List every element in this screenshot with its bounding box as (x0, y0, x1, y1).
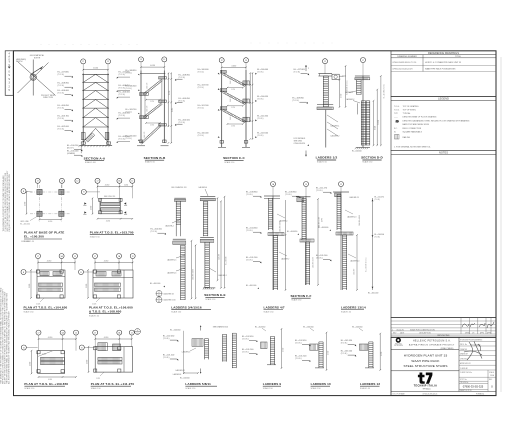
plan 103.700 outline (100, 198, 121, 214)
ladders 12 ladder (368, 342, 370, 368)
svg-text:SEE DWG 326: SEE DWG 326 (104, 196, 115, 198)
section B-B landings (140, 93, 149, 96)
section E-E upper ladder (202, 201, 204, 236)
svg-text:(T.O.S.): (T.O.S.) (58, 108, 65, 110)
svg-text:07900-33-MX-320-10 TO 20: 07900-33-MX-320-10 TO 20 (393, 62, 417, 64)
svg-text:SCALE 1:50: SCALE 1:50 (205, 298, 215, 301)
plan 111.270 grid bubbles (93, 330, 98, 335)
notes box (391, 150, 496, 317)
svg-text:ISSUE FOR CONSTRUCTION: ISSUE FOR CONSTRUCTION (410, 329, 435, 331)
svg-text:10x0.175: 10x0.175 (230, 114, 232, 120)
svg-text:CHECKED: CHECKED (460, 358, 468, 360)
svg-text:SECTION D-D: SECTION D-D (361, 156, 383, 160)
ladders 10 base (315, 367, 324, 369)
svg-text:DENOTES SPAN OF FLOOR GRATING: DENOTES SPAN OF FLOOR GRATING (403, 115, 437, 118)
ladders 13-14 upper ladder (336, 194, 338, 230)
ladders 5-8-11 down arrow (200, 369, 202, 374)
svg-text:07900-33-CS-001-1/2/3: 07900-33-CS-001-1/2/3 (393, 69, 413, 71)
svg-text:EL.+100.000: EL.+100.000 (150, 283, 160, 285)
svg-text:(TYP): (TYP) (322, 218, 324, 222)
plan base of plate grid bubble 12 (75, 178, 80, 183)
svg-text:14x0.178: 14x0.178 (144, 132, 146, 138)
ladders 13-14 mid platform (336, 232, 353, 235)
section C-C grid bubble 12 (219, 58, 224, 63)
plan 109.650 upper triangle detail (38, 351, 53, 357)
svg-text:TYPICAL: TYPICAL (403, 112, 411, 115)
svg-text:SCALE 1:50: SCALE 1:50 (24, 311, 34, 314)
svg-text:T.O.S.: T.O.S. (394, 109, 400, 111)
plan 106.600 column marks (93, 270, 96, 273)
plan 103.700 top dims (98, 186, 133, 188)
svg-text:(T.O.S.): (T.O.S.) (126, 111, 133, 113)
ladders 10 ladder (318, 342, 320, 368)
svg-text:EL.+104.650 (T.O.G.): EL.+104.650 (T.O.G.) (366, 257, 368, 272)
svg-text:LADDERS 9: LADDERS 9 (263, 382, 282, 386)
svg-text:TITLE: TITLE (455, 56, 461, 58)
ladders 13-14 grid bubble (339, 182, 344, 187)
svg-text:SCALE 1:50: SCALE 1:50 (145, 161, 155, 164)
svg-text:PROJ. No.: PROJ. No. (460, 344, 468, 346)
section F-F right dim (317, 199, 319, 285)
svg-text:D2: D2 (158, 301, 160, 303)
svg-text:12: 12 (163, 59, 165, 61)
svg-text:SHEET 01 OF 10: SHEET 01 OF 10 (460, 390, 472, 392)
svg-text:LADDER-1: LADDER-1 (218, 274, 226, 277)
svg-text:(T.O.S.): (T.O.S.) (242, 351, 249, 353)
svg-text:EL.+104.650: EL.+104.650 (255, 326, 265, 328)
svg-text:1.750: 1.750 (231, 125, 235, 127)
ladders 10 cage line (326, 333, 328, 370)
scale field (487, 370, 489, 392)
svg-text:FIELD CONNECTION: FIELD CONNECTION (403, 128, 422, 130)
svg-text:(T.O.S.): (T.O.S.) (341, 343, 348, 345)
svg-text:LADDER-5: LADDER-5 (182, 350, 190, 353)
svg-text:07900-33-SS-325-01: 07900-33-SS-325-01 (423, 393, 438, 395)
plan 104.650 stair band (39, 283, 63, 286)
ladders 13-14 top platform (333, 191, 349, 193)
svg-text:D1: D1 (158, 295, 160, 297)
svg-text:DENOTES GALVANIZED STEEL WELDE: DENOTES GALVANIZED STEEL WELDED FLOOR GR… (403, 120, 470, 123)
section C-C stair flight 3 (224, 109, 246, 121)
title block right fields (459, 340, 496, 342)
plan 111.270 bottom leader (100, 372, 104, 376)
svg-text:LADDER-2: LADDER-2 (331, 135, 340, 138)
top-left cartouche strip (5, 51, 13, 96)
svg-text:SCALE 1:50: SCALE 1:50 (263, 387, 273, 390)
ladders 9 platform (261, 342, 267, 349)
section A-A grid bubble 12 (106, 59, 111, 64)
plan 106.600 right panel (123, 270, 125, 298)
plan 109.650 outline (38, 351, 65, 374)
svg-text:(T.O.S.): (T.O.S.) (126, 88, 133, 90)
ladders 13-14 tall dim line (372, 198, 374, 290)
svg-text:TPI DWG No.: TPI DWG No. (460, 382, 469, 384)
svg-text:TOP OF STEEL: TOP OF STEEL (403, 109, 416, 111)
svg-text:(T.O.S.): (T.O.S.) (179, 100, 186, 102)
svg-text:PLAN AT T.O.S. EL.+109.650: PLAN AT T.O.S. EL.+109.650 (24, 382, 68, 386)
svg-text:4.050: 4.050 (106, 220, 110, 222)
svg-text:(T.O.S.): (T.O.S.) (119, 88, 126, 90)
section D-D right dim lines (373, 101, 375, 146)
svg-text:SCALE 1:100: SCALE 1:100 (85, 161, 96, 164)
svg-text:LADDERS 12: LADDERS 12 (360, 382, 380, 386)
plan 106.600 stair band (95, 283, 121, 286)
plan 111.270 left bubble (79, 345, 84, 350)
section E-E lower leader (209, 268, 216, 272)
svg-text:(T.O.S.): (T.O.S.) (341, 353, 348, 355)
plan 106.600 side dim (87, 270, 89, 298)
svg-text:HORIZ 1 & 2 STEAM PIPE RACK UN: HORIZ 1 & 2 STEAM PIPE RACK UNIT 33 (425, 61, 461, 64)
svg-text:SCALE 1:50: SCALE 1:50 (291, 299, 301, 302)
ladders 3-4-15-16 detail bubbles (156, 291, 162, 297)
section F-F mid platform (300, 239, 314, 242)
plan 111.270 top dims (95, 338, 132, 340)
plan 111.270 stair band (98, 357, 122, 360)
svg-text:SCALE 1:50: SCALE 1:50 (264, 311, 274, 314)
svg-text:SCALE 1:50: SCALE 1:50 (360, 387, 370, 390)
svg-text:(T.O.S.): (T.O.S.) (119, 94, 126, 96)
svg-text:PETROLEUM: PETROLEUM (394, 345, 403, 347)
ladders 12 base (365, 367, 374, 369)
plan 103.700 beam hatch top (101, 202, 120, 205)
section C-C right dim chains (249, 73, 251, 122)
svg-text:SEE DRAWING 326: SEE DRAWING 326 (171, 186, 186, 189)
svg-text:16x0.300=4.800: 16x0.300=4.800 (359, 215, 361, 226)
ladders 9 base (267, 364, 276, 366)
ladders 3-4-15-16 upper rails (175, 226, 177, 237)
ladders 5-8-11 ladder 3 (231, 333, 233, 368)
svg-text:8.850: 8.850 (374, 126, 376, 130)
section A-A bottom column stiffener left (81, 132, 85, 139)
svg-text:12: 12 (75, 332, 77, 334)
svg-text:TOP OF GRATING: TOP OF GRATING (403, 105, 419, 108)
ladders 4-7 column (272, 196, 274, 290)
svg-text:ASPRA PIRGOS UPGRADE PROJECT: ASPRA PIRGOS UPGRADE PROJECT (409, 344, 455, 347)
svg-text:1.750: 1.750 (231, 107, 235, 109)
ladders 1-2 grid bubble (323, 59, 328, 64)
section E-E base (203, 287, 215, 289)
ladders 4-7 upper ladder (268, 198, 270, 230)
svg-text:SQUARE HANDRAILS: SQUARE HANDRAILS (403, 131, 423, 134)
svg-text:NORTH: NORTH (16, 61, 23, 63)
ladders 1-2 upper ladder (322, 76, 324, 107)
svg-text:2: 2 (308, 68, 309, 70)
ladders 13-14 side dim (356, 235, 358, 290)
svg-text:DRWN: DRWN (465, 333, 470, 335)
svg-text:LADDER-11: LADDER-11 (176, 369, 185, 372)
svg-text:(T.O.S.): (T.O.S.) (179, 122, 186, 124)
svg-text:LADDER-8: LADDER-8 (173, 373, 181, 376)
svg-text:16x0.300=4.800: 16x0.300=4.800 (280, 221, 282, 232)
svg-text:PLAN AT T.O.S. EL.+104.650: PLAN AT T.O.S. EL.+104.650 (24, 305, 68, 309)
ladders 12 dim line (379, 334, 381, 370)
ladders 10 platform (310, 344, 318, 350)
ladders 3-4-15-16 mid platform (173, 238, 186, 240)
svg-text:(T.O.S.): (T.O.S.) (257, 135, 264, 137)
ladders 3-4-15-16 dim strings (191, 241, 193, 299)
svg-text:4.650: 4.650 (381, 352, 383, 356)
plan 106.600 bottom leader (96, 298, 100, 302)
svg-text:3.000: 3.000 (29, 284, 31, 288)
svg-text:(T.O.S.): (T.O.S.) (119, 115, 126, 117)
svg-text:17: 17 (37, 181, 39, 183)
svg-text:F.C.: F.C. (394, 128, 398, 130)
section D-D grid bubble (361, 58, 366, 63)
svg-text:LEGEND: LEGEND (438, 97, 449, 101)
svg-text:SCALE 1:50: SCALE 1:50 (171, 311, 181, 314)
plan 104.650 outline (37, 270, 65, 298)
svg-text:11.270: 11.270 (378, 120, 380, 125)
svg-text:TYP.: TYP. (394, 113, 398, 115)
svg-text:EL.+104.650: EL.+104.650 (287, 231, 297, 233)
svg-text:4.050: 4.050 (48, 337, 53, 339)
svg-text:(T.O.S.): (T.O.S.) (126, 138, 133, 140)
svg-text:(T.O.S.): (T.O.S.) (246, 230, 253, 232)
svg-text:1:100: 1:100 (490, 375, 494, 377)
section C-C grid bubble 13 (244, 58, 249, 63)
reference drawings table (391, 51, 496, 97)
svg-text:WAAH PIPE RACK FOUNDATIONS: WAAH PIPE RACK FOUNDATIONS (425, 68, 456, 71)
section A-A tower columns (82, 74, 84, 146)
svg-text:LADDERS 5/8/11: LADDERS 5/8/11 (185, 382, 211, 386)
svg-text:SCALE 1:50: SCALE 1:50 (224, 161, 234, 164)
svg-text:4.050: 4.050 (48, 221, 52, 223)
svg-text:DESCRIPTION: DESCRIPTION (419, 333, 431, 335)
svg-text:3.880: 3.880 (25, 202, 27, 206)
section A-A bottom column stiffener right (105, 132, 109, 139)
section B-B landing posts (144, 95, 146, 118)
section D-D upper ladder (356, 80, 358, 95)
svg-text:12: 12 (74, 256, 76, 258)
section B-B grid bubble 13 (139, 57, 144, 62)
svg-text:LADDER-13: LADDER-13 (347, 216, 356, 219)
svg-text:(T.O.S.): (T.O.S.) (198, 87, 205, 89)
svg-text:EL.+100.500: EL.+100.500 (375, 234, 385, 236)
ladders 5-8-11 left vertical (183, 331, 185, 374)
section A-A base plates (81, 142, 85, 144)
svg-text:16x0.300: 16x0.300 (354, 269, 356, 275)
svg-text:HYDROGEN PLANT UNIT 33: HYDROGEN PLANT UNIT 33 (404, 354, 448, 358)
ladders 3-4-15-16 upper platform (174, 197, 186, 199)
section B-B stair flight 1 (141, 125, 160, 143)
section B-B grid bubble 12 (162, 57, 167, 62)
ladders 1-2 bottom arrow (305, 151, 307, 157)
plan 109.650 stair band (40, 357, 64, 360)
section C-C mid landing left 2 (220, 89, 227, 92)
section B-B top dimension (141, 66, 164, 68)
section E-E lower ladder (204, 242, 206, 288)
section A-A floor beams (82, 73, 109, 75)
ladders 13-14 column (340, 192, 342, 290)
svg-text:SECTION A-A: SECTION A-A (84, 156, 106, 160)
svg-text:EL.+106.600: EL.+106.600 (318, 227, 328, 229)
plan 109.650 bottom dims (39, 376, 77, 378)
ladders 4-7 top platform (264, 195, 280, 197)
svg-text:SCALE 1:50: SCALE 1:50 (311, 387, 321, 390)
svg-text:(T.O.S.): (T.O.S.) (316, 258, 323, 260)
svg-text:SECTION F-F: SECTION F-F (290, 294, 311, 298)
plan 106.600 grid bubbles (93, 254, 98, 259)
svg-text:17: 17 (94, 332, 96, 334)
svg-text:(T.O.S.): (T.O.S.) (295, 343, 302, 345)
svg-text:DIRECTION: DIRECTION (43, 97, 54, 99)
svg-text:REVISIONS: REVISIONS (438, 335, 450, 337)
svg-text:(T.O.S.): (T.O.S.) (246, 194, 253, 196)
plan 109.650 left bubble (21, 345, 26, 350)
svg-text:16x0.178: 16x0.178 (147, 106, 149, 112)
svg-text:(T.O.S.): (T.O.S.) (257, 71, 264, 73)
svg-text:16x0.300=4.800: 16x0.300=4.800 (192, 269, 194, 280)
section D-D base hatch (356, 147, 370, 149)
section D-D top platform (355, 75, 370, 77)
svg-text:D3: D3 (136, 333, 138, 335)
svg-text:(GRADE): (GRADE) (67, 152, 75, 155)
svg-text:12: 12 (132, 256, 134, 258)
svg-text:17: 17 (37, 256, 39, 258)
plan 104.650 column marks (36, 270, 39, 273)
plan 103.700 grid bubble 1A (117, 178, 122, 183)
plan base of plate left dim (26, 192, 28, 214)
ladders 9 dim line (281, 329, 283, 368)
svg-text:LADDER-1: LADDER-1 (345, 91, 353, 94)
svg-text:& T.O.S. EL.+108.600: & T.O.S. EL.+108.600 (89, 309, 122, 313)
svg-text:17: 17 (82, 61, 84, 63)
section C-C columns (221, 70, 223, 147)
section C-C top dimension (222, 66, 246, 68)
svg-text:(T.O.S.): (T.O.S.) (119, 74, 126, 76)
section C-C stair flight 1 (224, 73, 246, 85)
plan base of plate grid bubble 1A (59, 178, 64, 183)
svg-text:EL.+104.650: EL.+104.650 (303, 326, 313, 328)
svg-text:1.750: 1.750 (231, 89, 235, 91)
svg-text:WAAH PIPE RACK: WAAH PIPE RACK (411, 359, 440, 363)
legend grating icon (395, 120, 399, 123)
section F-F grid bubble (304, 182, 309, 187)
svg-text:(T.O.S.): (T.O.S.) (285, 194, 292, 196)
plan base of plate centerlines (39, 185, 41, 222)
svg-text:4.050: 4.050 (150, 65, 155, 67)
svg-text:(T.O.S.): (T.O.S.) (375, 237, 381, 239)
section A-A bottom leader (80, 145, 82, 153)
plant north compass (30, 74, 36, 80)
svg-text:EL. +100.200: EL. +100.200 (24, 235, 44, 239)
svg-text:11x0.300: 11x0.300 (218, 254, 220, 260)
svg-text:4.650: 4.650 (341, 94, 343, 98)
svg-text:12: 12 (76, 181, 78, 183)
svg-text:PLAN AT T.O.S. EL.+103.700: PLAN AT T.O.S. EL.+103.700 (90, 230, 134, 234)
section A-A grid bubble 17 (81, 59, 86, 64)
ladders 4-7 leaders (277, 214, 285, 218)
ladders 5-8-11 up arrow (200, 326, 202, 331)
svg-text:SECTION E-E: SECTION E-E (204, 293, 225, 297)
plan 103.700 side dim (92, 198, 94, 214)
svg-text:3.000: 3.000 (30, 362, 32, 366)
section D-D column (362, 76, 364, 148)
plan 109.650 side dim (31, 351, 33, 374)
svg-text:NOTES: NOTES (439, 151, 448, 155)
svg-text:(T.O.S.): (T.O.S.) (58, 129, 65, 131)
title block company row (391, 349, 459, 351)
svg-text:LADDER-1: LADDER-1 (331, 125, 340, 128)
plan 111.270 side dim (88, 347, 90, 372)
plan 111.270 column marks (94, 347, 97, 350)
ladders 1-2 right dims (339, 80, 341, 107)
svg-text:12: 12 (324, 61, 326, 63)
svg-text:(T.O.S.): (T.O.S.) (58, 93, 65, 95)
svg-text:(T.O.S.): (T.O.S.) (294, 72, 301, 74)
legend railing icon (395, 135, 400, 140)
section D-D lower ladder (360, 101, 362, 146)
svg-text:3.715: 3.715 (172, 108, 174, 112)
section B-B columns (140, 71, 142, 143)
svg-text:SEE DRAWING 326: SEE DRAWING 326 (213, 325, 228, 328)
technip logo (418, 373, 425, 384)
svg-text:14x0.300=4.200: 14x0.300=4.200 (313, 257, 315, 268)
svg-text:1: 1 (392, 329, 393, 331)
plan 104.650 bottom leader (40, 298, 44, 302)
svg-text:TPI Milano: TPI Milano (422, 388, 430, 390)
section C-C mid landing left 3 (220, 107, 227, 110)
svg-text:LADDER-2: LADDER-2 (346, 98, 354, 101)
svg-text:(T.O.S.): (T.O.S.) (179, 77, 186, 79)
svg-text:1.750: 1.750 (150, 124, 154, 126)
svg-text:DRAWING NUMBER: DRAWING NUMBER (397, 55, 417, 58)
svg-text:SCALE 1:50: SCALE 1:50 (89, 315, 99, 318)
svg-text:(T.O.S.): (T.O.S.) (292, 100, 299, 102)
section C-C landing right 2 (243, 99, 250, 103)
svg-text:13: 13 (140, 59, 142, 61)
svg-text:EL.+100.000: EL.+100.000 (352, 151, 362, 153)
section B-B right dim chains (167, 73, 169, 127)
section B-B base plates (139, 140, 143, 143)
svg-text:REV.: REV. (489, 379, 493, 381)
ladders 13-14 lower ladder (342, 235, 344, 290)
svg-text:SCALE 1:50: SCALE 1:50 (317, 160, 327, 163)
svg-text:(T.O.S.): (T.O.S.) (163, 338, 170, 340)
section F-F lower ladder (305, 242, 307, 285)
signature scrawl (464, 342, 482, 361)
section F-F top platform (296, 196, 311, 198)
svg-text:17: 17 (158, 298, 160, 300)
svg-text:1.325: 1.325 (96, 378, 100, 380)
section A-A bottom chevron lines (83, 128, 95, 142)
ladders 12 platform (359, 344, 367, 350)
plan 104.650 left bubble (21, 270, 26, 275)
plan base of plate column footprints (37, 189, 42, 194)
svg-text:ALL RIGHTS ARE RESERVED BY TEC: ALL RIGHTS ARE RESERVED BY TECHNIP ITALY… (7, 310, 10, 384)
svg-text:LADDER-4: LADDER-4 (165, 225, 173, 228)
section A-A chevron braces (83, 74, 95, 82)
sheet edge line right (500, 57, 502, 392)
border frame (14, 51, 497, 396)
section C-C top landing left (220, 71, 226, 74)
svg-text:REFERENCE DRAWINGS: REFERENCE DRAWINGS (428, 51, 459, 55)
svg-text:1. FOR GENERAL NOTES SEE SHEET: 1. FOR GENERAL NOTES SEE SHEET 01. (394, 145, 431, 148)
svg-text:1.760: 1.760 (169, 91, 171, 95)
svg-text:LADDER-14: LADDER-14 (350, 260, 359, 263)
plan 106.600 outline (93, 270, 133, 298)
title block outline (391, 337, 496, 395)
svg-text:3.000: 3.000 (86, 284, 88, 288)
svg-text:SCALE 1:50: SCALE 1:50 (91, 387, 101, 390)
svg-text:HELLENIC: HELLENIC (395, 343, 402, 345)
svg-text:SECTION C-C: SECTION C-C (223, 156, 245, 160)
title block drawing title row (391, 370, 459, 372)
ladders 4-7 grid bubble (271, 182, 276, 187)
section A-A top dimension (83, 69, 108, 71)
plan base of plate grid bubble 17 (35, 178, 40, 183)
svg-text:EL.+104.650: EL.+104.650 (225, 256, 227, 265)
